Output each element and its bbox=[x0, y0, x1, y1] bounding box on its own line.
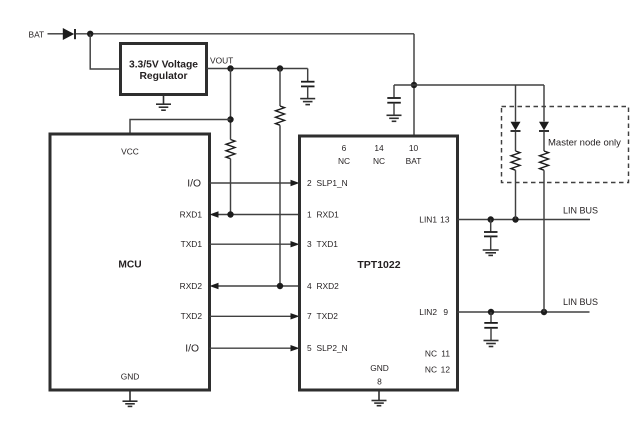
wire R2 to RXD2 row bbox=[279, 125, 281, 286]
wire RXD1 row with arrow into MCU bbox=[210, 211, 300, 217]
svg-text:9: 9 bbox=[443, 307, 448, 317]
svg-text:NC: NC bbox=[425, 349, 437, 359]
svg-text:TXD1: TXD1 bbox=[181, 239, 203, 249]
wire D3 to R4 bbox=[543, 131, 545, 151]
wire VOUT down to VCC node bbox=[230, 69, 232, 140]
svg-text:GND: GND bbox=[370, 363, 389, 373]
MCU box U3 bbox=[50, 134, 210, 390]
ground under regulator bbox=[156, 95, 171, 111]
diode D2 (master pull-up left) bbox=[511, 122, 521, 131]
svg-text:11: 11 bbox=[441, 349, 450, 359]
svg-text:8: 8 bbox=[377, 377, 382, 387]
svg-text:BAT: BAT bbox=[29, 30, 45, 40]
svg-text:Master node only: Master node only bbox=[548, 137, 621, 148]
svg-text:7: 7 bbox=[307, 311, 312, 321]
wire BAT node down to D2 bbox=[515, 85, 517, 122]
svg-text:LIN BUS: LIN BUS bbox=[563, 297, 598, 307]
wire VCC to MCU bbox=[130, 120, 231, 135]
diode D3 (master pull-up right) bbox=[539, 122, 549, 131]
wire diode to BAT vertical (top rail) bbox=[76, 33, 415, 35]
ground under MCU bbox=[123, 390, 138, 406]
svg-text:SLP2_N: SLP2_N bbox=[317, 343, 348, 353]
diode D1 bbox=[63, 28, 75, 40]
svg-text:6: 6 bbox=[342, 143, 347, 153]
wire RXD2 row with arrow into MCU bbox=[210, 283, 300, 289]
svg-text:13: 13 bbox=[440, 214, 450, 224]
junction dot LIN1/C3 bbox=[488, 216, 494, 222]
ground under C4 bbox=[484, 341, 499, 347]
svg-text:VOUT: VOUT bbox=[210, 56, 233, 66]
svg-text:LIN2: LIN2 bbox=[419, 307, 437, 317]
wire BAT to diode bbox=[48, 33, 64, 35]
ground under C1 bbox=[300, 99, 315, 105]
wire TXD1 row with arrow into TPT bbox=[210, 241, 300, 247]
capacitor C4 on LIN2 bbox=[484, 312, 498, 340]
capacitor C3 on LIN1 bbox=[484, 220, 498, 250]
svg-text:TXD2: TXD2 bbox=[317, 311, 339, 321]
wire VOUT down through R2 bbox=[279, 69, 281, 107]
svg-text:Regulator: Regulator bbox=[139, 71, 187, 82]
wire BAT rail down to TPT pin 10 bbox=[413, 34, 415, 136]
svg-text:4: 4 bbox=[307, 281, 312, 291]
svg-text:SLP1_N: SLP1_N bbox=[317, 178, 348, 188]
svg-text:LIN BUS: LIN BUS bbox=[563, 205, 598, 215]
svg-text:VCC: VCC bbox=[121, 146, 139, 156]
svg-text:1: 1 bbox=[307, 209, 312, 219]
wire R3 to LIN1 bbox=[515, 170, 517, 219]
wire VOUT rail bbox=[207, 68, 308, 70]
wire LIN2 row bbox=[458, 311, 590, 313]
resistor R3 (master pull-up left) bbox=[511, 151, 520, 170]
svg-text:RXD2: RXD2 bbox=[317, 281, 340, 291]
svg-text:NC: NC bbox=[425, 365, 437, 375]
svg-text:2: 2 bbox=[307, 178, 312, 188]
wire I/O to SLP1_N with arrow bbox=[210, 180, 300, 186]
resistor R2 (pull-up RXD2) bbox=[276, 106, 285, 125]
svg-text:10: 10 bbox=[409, 143, 419, 153]
svg-text:LIN1: LIN1 bbox=[419, 214, 437, 224]
svg-text:I/O: I/O bbox=[185, 344, 199, 355]
junction dot LIN2/C4 bbox=[488, 309, 494, 315]
junction dot VOUT/R1 bbox=[227, 65, 233, 71]
svg-text:RXD1: RXD1 bbox=[180, 209, 203, 219]
wire LIN1 row bbox=[458, 219, 591, 221]
svg-text:3.3/5V Voltage: 3.3/5V Voltage bbox=[129, 60, 198, 71]
ground under C2 bbox=[387, 115, 402, 121]
wire R4 to LIN2 bbox=[543, 170, 545, 312]
svg-text:14: 14 bbox=[374, 143, 384, 153]
junction dot top-left bbox=[87, 31, 93, 37]
capacitor C1 on VOUT bbox=[301, 69, 315, 99]
svg-text:5: 5 bbox=[307, 343, 312, 353]
svg-text:RXD1: RXD1 bbox=[317, 209, 340, 219]
wire D2 to R3 bbox=[515, 131, 517, 151]
wire TXD2 row with arrow into TPT bbox=[210, 313, 300, 319]
junction dot VOUT/R2 bbox=[277, 65, 283, 71]
junction dot LIN2/R4 bbox=[541, 309, 547, 315]
wire junction down to regulator input bbox=[90, 34, 120, 69]
svg-text:3: 3 bbox=[307, 239, 312, 249]
resistor R4 (master pull-up right) bbox=[540, 151, 549, 170]
svg-text:I/O: I/O bbox=[187, 178, 201, 189]
svg-text:TPT1022: TPT1022 bbox=[357, 259, 400, 271]
wire I/O to SLP2_N with arrow bbox=[210, 345, 300, 351]
wire BAT node horizontal bbox=[394, 84, 544, 86]
wire BAT node down to D3 bbox=[543, 85, 545, 122]
junction dot VCC branch bbox=[227, 116, 233, 122]
svg-text:RXD2: RXD2 bbox=[180, 281, 203, 291]
svg-text:MCU: MCU bbox=[118, 260, 141, 271]
voltage regulator U2 bbox=[121, 44, 207, 95]
svg-text:GND: GND bbox=[121, 372, 140, 382]
svg-text:NC: NC bbox=[373, 156, 385, 166]
resistor R1 (pull-up RXD1) bbox=[226, 140, 235, 159]
junction dot BAT cap node bbox=[411, 82, 417, 88]
svg-text:TXD2: TXD2 bbox=[181, 311, 203, 321]
svg-text:NC: NC bbox=[338, 156, 350, 166]
ground under TPT1022 pin 8 bbox=[372, 390, 387, 406]
svg-text:BAT: BAT bbox=[406, 156, 422, 166]
TPT1022 box U1 bbox=[300, 136, 458, 390]
svg-text:12: 12 bbox=[441, 365, 451, 375]
wire R1 to RXD1 row bbox=[230, 159, 232, 215]
junction dot LIN1/R3 bbox=[512, 216, 518, 222]
capacitor C2 on BAT bbox=[387, 85, 401, 115]
dashed box Master node only bbox=[502, 107, 629, 183]
svg-text:TXD1: TXD1 bbox=[317, 239, 339, 249]
ground under C3 bbox=[483, 250, 499, 255]
